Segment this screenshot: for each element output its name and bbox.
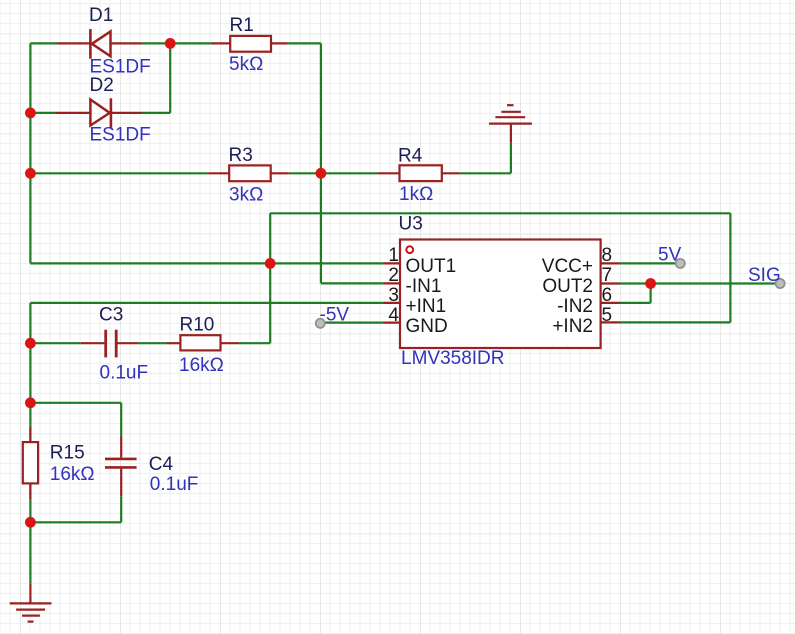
svg-text:0.1uF: 0.1uF (100, 362, 149, 383)
svg-text:6: 6 (602, 285, 613, 306)
svg-text:-5V: -5V (320, 305, 350, 326)
svg-text:5V: 5V (658, 244, 682, 265)
svg-text:16kΩ: 16kΩ (179, 355, 224, 376)
svg-text:VCC+: VCC+ (542, 256, 593, 277)
svg-text:5: 5 (602, 305, 613, 326)
svg-text:LMV358IDR: LMV358IDR (401, 348, 505, 369)
svg-text:R1: R1 (230, 15, 254, 36)
svg-text:D1: D1 (89, 5, 113, 26)
svg-text:5kΩ: 5kΩ (229, 54, 263, 75)
svg-text:1: 1 (388, 245, 399, 266)
svg-text:0.1uF: 0.1uF (150, 474, 199, 495)
svg-text:-IN2: -IN2 (557, 296, 593, 317)
svg-text:OUT2: OUT2 (542, 276, 593, 297)
svg-text:R3: R3 (229, 145, 253, 166)
svg-text:GND: GND (406, 316, 448, 337)
svg-text:SIG: SIG (748, 265, 781, 286)
svg-text:OUT1: OUT1 (406, 256, 457, 277)
svg-text:+IN1: +IN1 (406, 296, 447, 317)
svg-text:C4: C4 (149, 454, 174, 475)
svg-text:D2: D2 (90, 75, 114, 96)
svg-text:3: 3 (388, 285, 399, 306)
svg-text:7: 7 (602, 265, 613, 286)
svg-text:1kΩ: 1kΩ (399, 184, 433, 205)
svg-text:2: 2 (388, 265, 399, 286)
svg-text:ES1DF: ES1DF (90, 125, 151, 146)
svg-text:C3: C3 (99, 304, 123, 325)
svg-text:4: 4 (388, 305, 399, 326)
svg-text:16kΩ: 16kΩ (50, 464, 95, 485)
svg-text:3kΩ: 3kΩ (229, 184, 263, 205)
svg-text:+IN2: +IN2 (552, 316, 593, 337)
svg-text:R4: R4 (398, 145, 423, 166)
svg-text:U3: U3 (399, 213, 423, 234)
svg-text:-IN1: -IN1 (406, 276, 442, 297)
svg-text:R15: R15 (50, 443, 85, 464)
svg-text:R10: R10 (180, 314, 215, 335)
svg-text:8: 8 (602, 245, 613, 266)
